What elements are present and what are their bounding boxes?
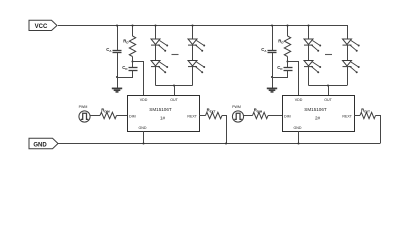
LED D23 (string B top) with emission arrows <box>343 39 360 52</box>
junction node on ground rail at U1 GND <box>142 142 144 144</box>
wire VCC rail to LED string B ch1 <box>192 26 194 40</box>
LED D24 (string B bottom) with emission arrows <box>343 61 360 74</box>
junction node on VCC rail at LED string A ch1 <box>154 24 156 26</box>
wire ground node down to ground symbol <box>117 77 119 88</box>
svg-text:RD: RD <box>123 39 128 45</box>
LED D14 (string B bottom) with emission arrows <box>188 61 205 74</box>
wire between LEDs string B ch1 <box>192 45 194 60</box>
svg-text:CA: CA <box>261 47 267 53</box>
wire REXT2 resistor down to ground rail <box>376 116 381 144</box>
junction node on VCC rail at CA1 <box>116 24 118 26</box>
wire PWM source to resistor RDIM1 <box>90 115 100 117</box>
svg-text:REXT: REXT <box>361 108 370 114</box>
resistor RDIM2 (label RDIM) <box>253 108 269 119</box>
wire REXT1 resistor down to ground rail <box>222 116 227 144</box>
svg-text:PWM: PWM <box>79 105 88 109</box>
junction VDD node ch2 <box>286 60 288 62</box>
wire VCC rail to resistor RD1 <box>132 26 134 37</box>
resistor RD1 (label RD) <box>123 36 135 57</box>
resistor REXT2 (label REXT) <box>360 108 376 119</box>
LED D21 (string A top) with emission arrows <box>304 39 321 52</box>
svg-text:1#: 1# <box>160 116 166 121</box>
wire CA2 bottom to ground node <box>272 53 274 77</box>
resistor REXT1 (label REXT) <box>206 108 223 119</box>
GND rail wire <box>57 143 380 145</box>
wire LED string B down to common OUT wire <box>192 67 194 86</box>
LED D22 (string A bottom) with emission arrows <box>304 61 321 74</box>
capacitor CA2 (label CA) <box>261 47 276 53</box>
svg-text:GND: GND <box>139 126 147 130</box>
op IC U2 SM15106T 2# LED driver <box>283 96 355 132</box>
junction node on VCC rail at RD1 <box>131 24 133 26</box>
wire LED string B down to common OUT wire <box>347 67 349 86</box>
svg-text:DIM: DIM <box>129 114 136 118</box>
wire LED string A to common OUT wire <box>155 67 157 86</box>
op IC U1 SM15106T 1# LED driver <box>128 96 200 132</box>
wire VCC rail corner down to LED string B ch2 <box>347 25 349 39</box>
junction node CA1/CD1 ground net <box>116 76 118 78</box>
junction node OUT net ch2 <box>327 84 329 86</box>
junction node on VCC rail at LED string A ch2 <box>307 24 309 26</box>
common OUT wire joining LED strings ch1 <box>156 85 193 87</box>
junction node on ground rail at REXT1 return <box>225 142 227 144</box>
resistor RD2 (label RD) <box>278 36 290 57</box>
wire GND pin U1 to ground rail <box>143 131 145 144</box>
GND power flag <box>29 138 58 148</box>
wire between LEDs string A ch1 <box>155 45 157 60</box>
LED D13 (string B top) with emission arrows <box>188 39 205 52</box>
svg-text:GND: GND <box>33 142 47 148</box>
wire REXT pin to resistor REXT1 <box>199 115 206 117</box>
wire VDD node jog to VDD pin <box>288 62 299 96</box>
capacitor CD2 (label CD) <box>277 62 292 71</box>
PWM source V2 (square-wave source) <box>232 105 243 122</box>
svg-text:OUT: OUT <box>324 98 332 102</box>
wire REXT pin to resistor REXT2 <box>354 115 360 117</box>
wire OUT net down to OUT pin <box>174 86 176 96</box>
wire between LEDs string A ch2 <box>308 45 310 60</box>
svg-text:RDIM: RDIM <box>254 108 263 114</box>
svg-text:CD: CD <box>122 65 127 71</box>
svg-text:VCC: VCC <box>35 24 48 30</box>
wire VCC rail to LED string A ch1 <box>155 26 157 40</box>
junction node on VCC rail at LED string B ch1 <box>191 24 193 26</box>
wire VCC rail to resistor RD2 <box>287 26 289 37</box>
capacitor CA1 (label CA) <box>106 47 121 53</box>
wire OUT net down to OUT pin <box>328 86 330 96</box>
ellipsis dash (more LED strings) ch1 <box>172 54 179 56</box>
svg-text:REXT: REXT <box>207 108 216 114</box>
svg-text:CD: CD <box>277 65 282 71</box>
ellipsis dash (more LED strings) ch2 <box>325 54 332 56</box>
VCC rail wire <box>58 25 347 27</box>
junction node on VCC rail at CA2 <box>271 24 273 26</box>
svg-text:SM15106T: SM15106T <box>304 107 327 112</box>
junction node on VCC rail at RD2 <box>286 24 288 26</box>
wire VCC rail to LED string A ch2 <box>308 26 310 40</box>
common OUT wire joining LED strings ch2 <box>309 85 348 87</box>
svg-text:SM15106T: SM15106T <box>149 107 172 112</box>
ground symbol ch1 <box>112 88 122 92</box>
svg-text:PWM: PWM <box>232 105 241 109</box>
svg-text:GND: GND <box>294 126 302 130</box>
wire RDIM2 to DIM pin <box>268 115 282 117</box>
capacitor CD1 (label CD) <box>122 62 137 71</box>
svg-text:RDIM: RDIM <box>101 108 110 114</box>
wire CD2 bottom to ground node <box>273 70 288 77</box>
svg-text:VDD: VDD <box>295 98 303 102</box>
wire RD1 to VDD node <box>132 57 134 62</box>
wire VCC rail to capacitor CA2 <box>272 26 274 51</box>
resistor RDIM1 (label RDIM) <box>100 108 117 119</box>
LED D12 (string A bottom) with emission arrows <box>151 61 168 74</box>
wire VDD node jog to VDD pin <box>133 62 144 96</box>
wire VCC rail to capacitor CA1 <box>117 26 119 51</box>
svg-text:VDD: VDD <box>140 98 148 102</box>
svg-text:REXT: REXT <box>342 114 352 118</box>
wire LED string A to common OUT wire <box>308 67 310 86</box>
junction node OUT net ch1 <box>173 84 175 86</box>
wire RDIM1 to DIM pin <box>117 115 128 117</box>
svg-text:RD: RD <box>278 39 283 45</box>
LED D11 (string A top) with emission arrows <box>151 39 168 52</box>
wire RD2 to VDD node <box>287 57 289 62</box>
junction node CA2/CD2 ground net <box>271 76 273 78</box>
svg-text:OUT: OUT <box>170 98 178 102</box>
svg-text:2#: 2# <box>315 116 321 121</box>
junction VDD node ch1 <box>131 60 133 62</box>
junction node on ground rail at U2 GND <box>297 142 299 144</box>
wire ground node down to ground symbol <box>272 77 274 88</box>
svg-text:DIM: DIM <box>284 114 291 118</box>
PWM source V1 (square-wave source) <box>79 105 90 122</box>
svg-text:CA: CA <box>106 47 112 53</box>
wire GND pin U2 to ground rail <box>298 131 300 144</box>
wire CA1 bottom to ground node <box>117 53 119 77</box>
wire PWM source to resistor RDIM2 <box>244 115 253 117</box>
wire CD1 bottom to ground node <box>118 70 133 77</box>
wire between LEDs string B ch2 <box>347 45 349 60</box>
ground symbol ch2 <box>267 88 277 92</box>
VCC power flag <box>29 20 57 30</box>
svg-text:REXT: REXT <box>187 114 197 118</box>
